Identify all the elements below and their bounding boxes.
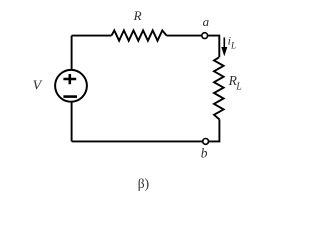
resistor RL [214,57,224,119]
wire left side (bottom of source) [71,102,73,141]
svg-text:L: L [235,82,242,93]
minus sign [63,95,77,98]
svg-text:b: b [201,146,208,161]
node a [202,33,208,39]
svg-text:L: L [230,41,236,51]
resistor R [112,30,167,40]
node b [203,139,209,145]
wire left side (top of source) [71,36,73,70]
wire top-right segment [167,36,220,58]
svg-text:R: R [133,8,142,23]
svg-text:a: a [203,14,210,29]
plus sign [63,74,76,84]
wire top-left lead [72,35,112,37]
svg-text:V: V [33,78,43,93]
wire right-bottom segment [72,119,220,141]
current arrow iL [221,37,227,56]
svg-text:β): β) [138,176,149,191]
voltage source V circle [55,70,87,102]
